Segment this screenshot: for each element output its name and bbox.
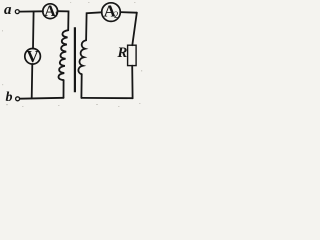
wire a to A1 — [20, 10, 43, 12]
wire A1 to transformer primary — [58, 11, 69, 30]
wire secondary bottom lead — [80, 74, 82, 98]
transformer secondary coil — [78, 40, 86, 74]
wire junction to voltmeter — [32, 12, 35, 49]
terminal a — [15, 10, 19, 14]
svg-text:V: V — [27, 47, 40, 66]
ammeter A2 — [102, 3, 121, 22]
transformer core — [74, 27, 76, 92]
wire R top to corner — [132, 13, 137, 46]
wire secondary top — [86, 12, 102, 40]
wire V to bottom — [31, 64, 34, 98]
svg-text:2: 2 — [114, 10, 119, 20]
wire A2 to corner — [120, 11, 137, 14]
wire primary bottom lead — [63, 80, 65, 98]
resistor R — [128, 45, 137, 65]
transformer primary coil — [58, 30, 68, 80]
wire R bottom lead — [131, 66, 133, 99]
wire bottom right — [81, 97, 132, 99]
svg-text:a: a — [4, 2, 12, 18]
svg-text:b: b — [6, 90, 13, 105]
terminal b — [16, 97, 20, 101]
svg-text:1: 1 — [54, 10, 58, 18]
scan speckles — [2, 2, 142, 107]
wire bottom left — [20, 97, 64, 100]
ammeter A1 — [43, 4, 58, 19]
svg-text:R: R — [116, 45, 127, 61]
voltmeter V — [25, 49, 41, 65]
